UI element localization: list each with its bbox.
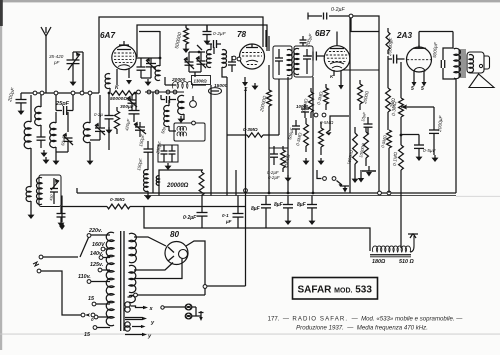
wire 2000pF branch (401, 105, 434, 131)
wire 0.3M line (61, 206, 246, 208)
ground det a (303, 158, 310, 165)
svg-text:0·2µ: 0·2µ (94, 112, 103, 117)
label y 2 (147, 334, 152, 340)
terminal 15 bottom (93, 326, 110, 330)
label 500000 rotated (174, 32, 183, 50)
ground RF tank 2 (87, 158, 94, 165)
svg-text:177. — RADIO SAFAR. — Mod.: 177. — RADIO SAFAR. — Mod. «533» mobile … (268, 316, 464, 323)
label 0.2uF AVC (331, 7, 345, 13)
coil RF tank 2 (83, 95, 90, 158)
capacitor 0.2uF det (270, 146, 278, 165)
wire 0.5uF branch (401, 135, 419, 146)
ground 6A7 anode lead arrow (126, 80, 132, 85)
wire AVC run (227, 79, 279, 135)
wire top bus B (137, 25, 267, 57)
caption line 1 (268, 316, 464, 323)
label 0.2uF sw (268, 175, 280, 180)
capacitor 300pF det (292, 120, 300, 135)
wire mixer grid (136, 57, 161, 60)
svg-text:5: 5 (421, 86, 424, 92)
wire 6B7 plate up (336, 32, 338, 42)
wire osc column (108, 93, 110, 115)
transformer core (121, 231, 124, 331)
coil output primary (454, 48, 460, 79)
terminal 110V (87, 280, 110, 284)
label 0.3M bias rotated (391, 101, 398, 116)
capacitor 300pF (129, 90, 141, 122)
label 160V (92, 242, 105, 248)
label 8uF b (274, 202, 284, 208)
label 150uF rotated (138, 134, 146, 148)
label 2A3 (396, 31, 412, 40)
ground tone choke (28, 212, 35, 219)
svg-text:20000Ω: 20000Ω (166, 183, 189, 189)
svg-text:0·2µF: 0·2µF (268, 175, 280, 180)
wire mixer bottom (165, 77, 206, 85)
variable capacitor mixer (146, 57, 156, 78)
wire 2A3 plate up (419, 32, 453, 49)
label 0.5M det rotated (380, 134, 388, 148)
label 0.3M tone (110, 197, 125, 203)
resistor 50000 ohm (111, 91, 134, 96)
wire node to 6B7 screen (351, 18, 379, 32)
label 0.1M bias rotated (392, 151, 398, 166)
terminal mixer 4 (145, 90, 184, 94)
label 0.5uF (423, 148, 437, 154)
tube 6B7 grids (326, 55, 348, 61)
label 0.5M b rotated (295, 131, 303, 146)
label 125V (90, 262, 104, 268)
ground out sec (145, 193, 152, 200)
resistor 2000 screen (358, 80, 363, 110)
capacitor 8uF c (307, 196, 317, 219)
terminal bus 2 (40, 91, 44, 95)
label 140V (90, 251, 104, 257)
label 200pF rotated (305, 32, 314, 48)
tube 6A7 grids (114, 53, 134, 63)
coil IF2h b (177, 121, 195, 136)
wire cluster bottom (189, 72, 201, 77)
resistor 20000 ohm det (267, 90, 272, 194)
capacitor pair box (158, 145, 178, 162)
switch mains (317, 170, 342, 187)
coil padder 0000 (164, 100, 169, 127)
label 20000pF rotated (387, 36, 394, 57)
label 0.2uF osc (94, 112, 103, 117)
wire forest h1 (342, 69, 379, 71)
wire x arrow (128, 293, 149, 309)
wire bias bottom (400, 170, 402, 248)
coil tone box (37, 177, 42, 204)
wire field tap (408, 234, 418, 253)
label 25pF (55, 101, 70, 107)
IF transformer 2 box (294, 46, 313, 77)
coil IF2 a (294, 49, 299, 75)
label 6A7 (100, 31, 115, 40)
wire 80 plate top (134, 237, 166, 246)
label K 6A7 (115, 85, 119, 91)
resistor oscillator bias (114, 107, 119, 134)
label 0.2uF ps (183, 215, 197, 221)
capacitor 0.2uF osc (105, 116, 114, 128)
svg-text:220v.: 220v. (88, 228, 103, 234)
tube 6B7 envelope U3 (324, 46, 350, 72)
wire forest v4 (349, 18, 351, 194)
wire 2A3 cathode chain top (400, 62, 402, 98)
svg-text:110v.: 110v. (78, 274, 91, 280)
SAFAR model text (298, 285, 373, 296)
capacitor IF2 tune (303, 49, 311, 74)
node osc pad (232, 56, 241, 61)
wire y arrow 2 (125, 333, 147, 337)
tube 6A7 top cap (119, 41, 129, 45)
label x (149, 306, 154, 312)
coil loop out 4 (125, 326, 130, 331)
capacitor 0.1uF tone (57, 207, 66, 221)
svg-text:35-420: 35-420 (49, 54, 64, 59)
ground 0.5uF (416, 154, 423, 161)
label 110V (78, 274, 91, 280)
ground det b (318, 158, 325, 165)
ground 2000pF (432, 155, 439, 162)
wire 80 output right (205, 229, 246, 296)
coil loop out 2 (125, 307, 130, 312)
resistor 0.3M bias (399, 98, 404, 117)
wire mixer vert (139, 31, 160, 58)
wire bias mid (400, 117, 403, 145)
label 15 top (88, 296, 95, 302)
wire forest v2 (287, 77, 289, 194)
wire B minus (144, 207, 370, 252)
capacitor 78 grid cap (207, 40, 221, 54)
coil transformer primary (106, 232, 114, 326)
resistor 10000 d (364, 127, 369, 166)
variable capacitor RF trimmer (90, 95, 105, 140)
capacitor IF1 tune (275, 49, 283, 75)
tube 2A3 filament (414, 68, 425, 72)
tube 6A7 envelope U1 (112, 45, 136, 69)
wire osc tank bottom (108, 127, 110, 150)
wire output bottom (455, 79, 457, 193)
wire trimmer cluster top (189, 51, 205, 54)
coil antenna secondary (35, 95, 41, 126)
coil 20000 horizontal (172, 81, 192, 88)
coil osc coupling a (207, 44, 211, 67)
caption line 2 (296, 325, 428, 332)
resistor 0.5M b (304, 118, 309, 152)
ground 500000 resistor (183, 46, 190, 53)
capacitor 5000pF + primary loop (441, 48, 456, 79)
label 450 rotated (49, 193, 54, 201)
label 2000pF rotated (437, 114, 445, 133)
tube 2A3 grid dash (407, 59, 431, 61)
wire 78 verticals (266, 30, 269, 51)
variable capacitor cluster 2 (196, 45, 206, 72)
label 16000 rotated (346, 149, 354, 165)
coil IF1 b (287, 50, 292, 76)
label 2000 rotated (283, 153, 291, 169)
node bus b (287, 192, 290, 195)
page left border (0, 0, 3, 350)
wire arrow mid (132, 325, 146, 328)
svg-text:0·3MΩ: 0·3MΩ (110, 197, 125, 203)
label 150pF rotated (136, 158, 144, 172)
label 0.3M AVC (243, 127, 258, 133)
svg-text:80: 80 (170, 230, 180, 239)
capacitor 10uF (364, 117, 373, 134)
label 8uF c (297, 202, 307, 208)
wire earth drop (59, 196, 65, 231)
label 300pF (120, 104, 135, 110)
terminal 0 (94, 315, 110, 319)
svg-text:0: 0 (91, 317, 94, 322)
terminal mains a (39, 255, 78, 259)
label 20000 box (166, 183, 189, 189)
capacitor 0.5uF (414, 145, 424, 154)
svg-text:0·5MΩ: 0·5MΩ (320, 120, 334, 125)
wire IF2 box leads (169, 126, 176, 131)
resistor 2M grid (386, 56, 391, 130)
wire 6A7 cathode lead (117, 68, 129, 85)
wire 80 plate bottom (134, 263, 173, 271)
capacitor 0.2uF IF (206, 25, 208, 31)
resistor 0.3M det (324, 84, 329, 110)
capacitor antenna sec (37, 125, 46, 148)
label y 1 (150, 320, 155, 326)
capacitor 200pF antenna series (16, 93, 27, 108)
capacitor padder trimmer (134, 121, 146, 137)
wire hv return (134, 294, 205, 296)
switch mains lever (80, 238, 89, 258)
coil IF1 primary feed (178, 95, 184, 120)
capacitor 8uF b (283, 196, 293, 219)
ground mixer right (242, 77, 248, 87)
wire mid vert 1 (210, 85, 212, 196)
label 10000 d rotated (358, 142, 366, 158)
capacitor 2A3 grid (388, 55, 405, 64)
label 1300 (192, 76, 211, 85)
ground 6B7 cathode arrow (338, 71, 344, 90)
label 20000 (171, 77, 186, 83)
svg-text:0·2µF: 0·2µF (331, 7, 345, 13)
terminal speaker b (185, 313, 191, 319)
terminal bus 5 (80, 91, 84, 95)
svg-text:6A7: 6A7 (100, 31, 115, 40)
svg-text:50000Ω: 50000Ω (110, 96, 127, 102)
capacitor tracking (127, 95, 137, 110)
label 80 (170, 230, 180, 239)
wire 2A3 filament leads (412, 72, 427, 87)
label 15 bottom (84, 332, 91, 338)
label 50pF rotated (60, 135, 67, 146)
ground antenna area (43, 157, 50, 164)
svg-text:0·2µF: 0·2µF (213, 31, 227, 37)
coil loop out 3 (125, 322, 130, 327)
resistor 20000 box (199, 170, 204, 196)
label 180 ohm (372, 259, 386, 265)
node mid vert (244, 87, 248, 228)
svg-text:0·2µF: 0·2µF (183, 215, 197, 221)
ground capacitor pair (165, 163, 172, 170)
node forest a (314, 113, 318, 117)
coil transformer mid secondary (129, 265, 136, 292)
terminal speaker b (186, 313, 192, 319)
terminal bus 1 (33, 91, 37, 95)
resistor 0.3M AVC (247, 133, 263, 137)
tube 80 plates (168, 247, 174, 261)
resistor 500000 ohm osc grid (184, 25, 189, 46)
terminal mixer 3 (166, 90, 170, 94)
ground switch b (358, 170, 365, 183)
wire mixer col (152, 92, 154, 194)
box 20000 ohm (156, 170, 203, 196)
tube 6B7 cathode (330, 62, 344, 68)
svg-text:125v.: 125v. (90, 262, 104, 268)
label 510 ohm (399, 259, 414, 265)
wire mid vert 3 (235, 170, 237, 196)
ground osc column (106, 127, 113, 134)
svg-text:5: 5 (411, 86, 414, 92)
resistor 0.5M a (309, 88, 314, 118)
label 250uF rotated (155, 141, 163, 156)
terminal fuse a (81, 313, 85, 317)
label 35-420pF rotated (124, 118, 131, 131)
label 0.3M rotated (316, 90, 324, 105)
node bus d (378, 191, 382, 195)
svg-text:1300Ω: 1300Ω (194, 79, 208, 84)
wire forest v3 (312, 77, 314, 194)
resistor 0.5M det (387, 130, 392, 148)
capacitor tone box (50, 178, 59, 204)
coil antenna primary (24, 95, 31, 149)
capacitor 0.2uF top (203, 25, 212, 38)
tube 78 envelope U2 (240, 44, 265, 69)
IF2 box (174, 123, 205, 141)
ground antenna trimmer (70, 79, 77, 86)
SAFAR model box (293, 278, 378, 300)
wire antenna bus (21, 92, 99, 94)
resistor 0.1M bias (399, 145, 404, 170)
wire 80 filament (134, 258, 182, 279)
wire y arrow 1 (125, 317, 147, 321)
svg-text:78: 78 (237, 30, 247, 39)
variable capacitor 50pF (56, 112, 73, 152)
label 0.5M a rotated (301, 97, 309, 112)
resistor screen top (386, 28, 390, 54)
coil transformer fil secondary (129, 295, 135, 302)
trimmer circle (190, 96, 197, 107)
resistor 0.3M tone (107, 204, 130, 209)
label 0 (91, 317, 94, 322)
label 6B7 (315, 29, 330, 38)
ground IF1 feed (178, 116, 185, 123)
label 10000 small (296, 104, 309, 109)
tube 6A7 cathode (118, 65, 130, 67)
capacitor IF2 link (300, 36, 307, 46)
svg-text:15: 15 (88, 296, 95, 302)
tube 78 cathode (246, 60, 258, 64)
coil IF2h a (177, 126, 186, 130)
variable capacitor cluster 1 (184, 52, 194, 72)
svg-text:Produzione 1937. — Media fre: Produzione 1937. — Media frequenza 470 k… (296, 325, 428, 332)
resistor 0.5M c (319, 122, 324, 155)
label 35-420 pF (49, 54, 64, 65)
wire forest v1 (268, 65, 270, 90)
wire output top (452, 47, 454, 49)
node bus e (387, 148, 391, 195)
terminal speaker a (186, 304, 192, 310)
label 0.2uF top (213, 31, 227, 37)
mains squiggle (33, 262, 39, 266)
capacitor mixer grid (137, 58, 146, 78)
page faint rule mid (456, 195, 500, 198)
capacitor det pair (301, 104, 309, 118)
ground antenna sec (41, 150, 48, 157)
label 200pF rotated (7, 86, 17, 103)
ground 0.2uF top (204, 38, 211, 45)
node bus c (312, 192, 315, 195)
capacitor 0.2uF ps (197, 196, 208, 229)
terminal bus 6 (88, 91, 92, 95)
svg-text:µF: µF (225, 219, 232, 224)
svg-text:6B7: 6B7 (315, 29, 330, 38)
label 50u rotated (160, 126, 166, 135)
label 20000 rotated (259, 95, 268, 113)
label 15000 (214, 83, 228, 89)
coil osc coupling b (222, 50, 227, 77)
wire AVC top line (308, 13, 350, 20)
wire main bus (77, 188, 456, 196)
ground det c (362, 166, 376, 177)
terminal fuse b (85, 313, 95, 317)
label 2M grid rotated (389, 97, 396, 109)
label K 6B7 (330, 70, 334, 79)
antenna (41, 27, 51, 93)
resistor 16000 (352, 127, 359, 183)
node forest b (322, 113, 326, 117)
coil speaker voice (469, 55, 473, 73)
label 2000 screen rotated (362, 90, 370, 105)
label 5000pF rotated (432, 41, 438, 58)
ground det e (285, 175, 292, 182)
coil tone choke (26, 148, 31, 212)
wire speaker terms (161, 306, 196, 316)
svg-text:8µF: 8µF (297, 202, 307, 208)
terminal speaker a (185, 304, 191, 310)
ground 200pF (18, 108, 25, 115)
output transformer core (459, 49, 465, 78)
capacitor 0.1uF ps (233, 196, 244, 229)
ground speaker term (196, 311, 204, 321)
coil field 180ohm (370, 246, 411, 257)
svg-text:8µF: 8µF (274, 202, 284, 208)
wire mid vert 2 (226, 77, 228, 196)
node bus a (268, 192, 271, 195)
capacitor 6B7 grid cap (307, 52, 325, 61)
variable capacitor antenna trimmer (67, 51, 81, 79)
node 80 output (203, 285, 207, 289)
tube 78 plate (246, 44, 258, 48)
svg-text:510 Ω: 510 Ω (399, 259, 414, 265)
page faint rule bottom (0, 333, 500, 336)
terminal bus 4 (71, 91, 75, 95)
speaker body (467, 52, 490, 73)
capacitor link mid (161, 95, 176, 103)
page top border (0, 0, 500, 2)
terminal 15 top (92, 302, 110, 306)
svg-text:25pF: 25pF (55, 101, 70, 107)
wire B+ rail right (353, 16, 379, 193)
